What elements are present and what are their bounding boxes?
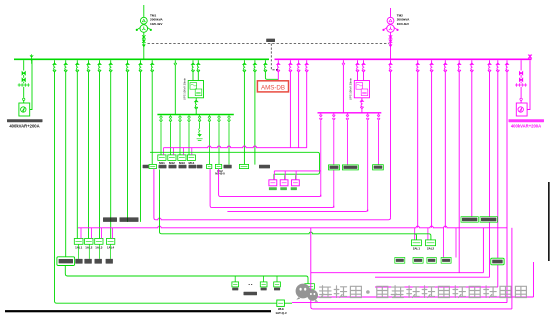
transformer T2 (magenta incomer) [382, 8, 398, 60]
sub-feeder WR-u2 (magenta) [332, 113, 335, 208]
bus 1 (green 0.4kV busbar) [14, 58, 269, 60]
svg-text:M142-0: M142-0 [215, 172, 225, 176]
ring m6 [311, 228, 512, 309]
panel box 1AL2 [85, 239, 93, 250]
route green second-bottom with hanging boxes [65, 266, 308, 284]
svg-text:1AL3: 1AL3 [95, 245, 102, 249]
hanging box H1 [232, 282, 239, 291]
B-box labels [269, 187, 297, 190]
right row spec boxes [395, 258, 451, 264]
breaker QF-R8 feeder (magenta) [458, 60, 461, 273]
breaker QF-R3 feeder (magenta) [305, 60, 308, 148]
breaker QF-R0 feeder to AMS-DB (magenta) [277, 60, 280, 81]
sub-feeder WL-u5 with SPD (green) [197, 115, 203, 141]
hanging row labels [244, 292, 316, 296]
svg-text:400kVAR+200A: 400kVAR+200A [511, 124, 541, 129]
route U3 (magenta) [227, 209, 367, 211]
routing green to B-boxes [150, 152, 320, 180]
cable label WL7 [103, 217, 117, 222]
magenta feed line to ATS row [164, 146, 307, 155]
svg-text:10/0.4kV: 10/0.4kV [150, 22, 163, 26]
svg-text:2000kVA: 2000kVA [397, 18, 410, 22]
AMS-DB distribution box [257, 81, 288, 92]
ring m9 [311, 228, 483, 273]
value label T1: TM1 2000kVA 10/0.4kV [150, 13, 163, 26]
breaker QF-L2 feeder (green) [64, 60, 67, 257]
bus 2 (magenta 0.4kV busbar) [275, 58, 532, 60]
bus 3 (green UPS sub-bus) [157, 114, 233, 116]
UPS U1 label text [183, 78, 187, 100]
ring m12 bottom magenta [292, 302, 507, 304]
panel box 1AL1 [74, 239, 83, 250]
breaker QF-R11 feeder (magenta) [496, 60, 499, 287]
breaker QF-L8 feeder (green) [139, 60, 142, 222]
svg-text:2AL1: 2AL1 [413, 247, 420, 251]
breaker UPS2 input a (magenta) [356, 60, 359, 80]
svg-text:M14: M14 [188, 161, 194, 165]
UPS U2 10kVA 30min (magenta) [354, 81, 369, 98]
breaker QF-L6 feeder (green) [109, 60, 112, 238]
wire UPS1 output [195, 98, 198, 115]
breaker QF-L7 feeder (green) [126, 60, 129, 222]
UPS U2 label text [349, 78, 353, 100]
sub-feeder WR-u5 (magenta) [366, 113, 369, 212]
breaker QF-L4 feeder (green) [87, 60, 90, 238]
route U2 (magenta) [210, 169, 334, 208]
ATS box M14 [187, 155, 195, 165]
dash marks [249, 284, 253, 286]
route U1 (magenta) [219, 169, 321, 197]
ATS box M11 [158, 155, 166, 165]
svg-text:400kVAR+200A: 400kVAR+200A [9, 124, 39, 129]
sub-feeder WR-u1 (magenta) [319, 113, 322, 197]
UPS U1 10kVA 30min (green) [188, 81, 203, 98]
tie line label WM [266, 39, 275, 42]
label blob row2-5 [259, 165, 270, 169]
B-box 2 [280, 180, 288, 186]
ATS box M12 [168, 155, 176, 165]
wire UPS2 output [360, 98, 363, 113]
breaker QF-L5 feeder (green) [98, 60, 101, 238]
B-box 3 [292, 180, 300, 186]
breaker QF-R1 feeder (magenta) [289, 60, 292, 148]
panel box row2-1 [207, 164, 212, 168]
right bordered box [491, 258, 504, 265]
S-row tails [79, 244, 111, 259]
svg-text:UPS 10kVA 30min: UPS 10kVA 30min [349, 78, 353, 100]
sheet border bottom [5, 310, 271, 312]
panel box row2-0 [143, 164, 157, 168]
green label row right [461, 217, 497, 223]
svg-text:2000kVA: 2000kVA [150, 18, 163, 22]
hanging box H2 [260, 282, 267, 291]
bus-tie dropper (dashed) [271, 44, 278, 71]
svg-text:1AL4: 1AL4 [107, 245, 114, 249]
breaker UPS1 input a (green) [191, 60, 194, 80]
routing magenta to B-boxes [274, 171, 321, 180]
value label C1: 400kVAR+200A [7, 119, 43, 128]
value label C2: 400kVAR+200A [509, 119, 545, 128]
sheet border right [548, 182, 550, 261]
ring m13a [375, 276, 490, 278]
sub-feeder WL-u4 (green) [188, 115, 191, 155]
sub-feeder WR-u6 (magenta) [377, 113, 380, 165]
route full-width (magenta) [154, 169, 391, 220]
svg-text:AMS-DB: AMS-DB [261, 84, 285, 91]
bus 4 (magenta UPS sub-bus) [318, 112, 382, 114]
S-row spec blobs [75, 259, 113, 264]
hanging box H4 [305, 284, 315, 293]
panel box 2AL1 [411, 240, 421, 251]
sub-feeder WL-u1 (green) [160, 115, 163, 155]
breaker QF-L14 feeder to AMS-DB (green) [264, 60, 279, 79]
panel box 2AL2 [426, 240, 436, 251]
cable label WL8 [120, 217, 139, 222]
label box P1 [329, 165, 340, 170]
arrow symbol on bus 2 right [528, 54, 532, 59]
breaker QF-L13 feeder (green) [253, 60, 256, 164]
B-box 1 [269, 180, 277, 186]
ATS box M13 [178, 155, 186, 165]
breaker QF-R12 feeder (magenta) [505, 60, 508, 302]
svg-text:1AT-Q-#: 1AT-Q-# [275, 311, 287, 315]
breaker UPS2 input b (magenta) [362, 60, 365, 80]
sub-feeder WL-u7 (green) [218, 115, 221, 165]
wire UPS1 bypass (green) [174, 60, 177, 114]
capacitor bank C2 (magenta, right) [515, 60, 530, 116]
sub-feeder WL-u6 (green) [208, 115, 211, 165]
svg-text:M11: M11 [159, 161, 165, 165]
transformer T1 (green incomer) [136, 5, 152, 60]
sub-feeder WL-u8 (green) [228, 115, 231, 165]
route green bottom-most [55, 72, 293, 304]
breaker QF-R2 feeder (magenta) [297, 60, 300, 148]
routing green cross to right S-row [160, 170, 431, 240]
wire UPS2 bypass (magenta) [342, 60, 345, 113]
PT/arrow symbol on bus 1 left [30, 54, 33, 64]
breaker QF-L1 feeder (green) [53, 60, 56, 301]
svg-text:10/0.4kV: 10/0.4kV [397, 22, 410, 26]
ring m13b [375, 286, 498, 288]
breaker QF-R9 feeder (magenta) [470, 60, 473, 217]
breaker QF-R4 feeder (magenta, under incomer) [389, 60, 392, 217]
panel box row2-4 [239, 164, 248, 168]
panel box 1AL4 [106, 239, 114, 250]
svg-text:2AL2: 2AL2 [427, 247, 434, 251]
row2 label blobs under ATS boxes [159, 165, 203, 169]
breaker QF-L12 feeder (green) [243, 60, 246, 164]
sub-feeder WL-u3 (green) [179, 115, 182, 155]
sub-feeder WL-u2 (green) [169, 115, 172, 155]
svg-text:M12: M12 [169, 161, 175, 165]
capacitor bank C1 (green, left) [18, 60, 32, 116]
label box P2 [342, 165, 358, 170]
magenta feed line to S-row [78, 226, 507, 257]
breaker QF-L9 feeder (green) [151, 60, 154, 164]
emergency lighting box (bordered) [57, 257, 75, 266]
breaker QF-R10 feeder (magenta) [488, 60, 491, 277]
label blob row2-3 [224, 165, 232, 169]
value label T2: TM2 2000kVA 10/0.4kV [397, 13, 410, 26]
breaker QF-R6 feeder (magenta) [430, 60, 433, 228]
breaker QF-R5 feeder (magenta) [416, 60, 419, 228]
breaker QF-R7 feeder (magenta) [444, 60, 447, 228]
box on bottom line [277, 300, 285, 306]
bottom line label [275, 307, 287, 315]
watermark text [320, 286, 527, 298]
ring m13c [311, 262, 534, 297]
svg-text:M13: M13 [179, 161, 185, 165]
breaker UPS1 input b (green) [197, 60, 200, 80]
label M142-0 [215, 169, 225, 176]
panel box row2-2 [215, 164, 221, 168]
panel box 1AL3 [95, 239, 103, 250]
sub-feeder WR-u3 (magenta) [346, 113, 349, 165]
breaker QF-L3 feeder (green) [76, 60, 79, 238]
hanging box H3 [274, 282, 281, 291]
svg-text:UPS 10kVA 30min: UPS 10kVA 30min [183, 78, 187, 100]
label box P3 [373, 165, 384, 170]
watermark icon [296, 284, 319, 302]
tie line (dashed) [148, 43, 390, 45]
